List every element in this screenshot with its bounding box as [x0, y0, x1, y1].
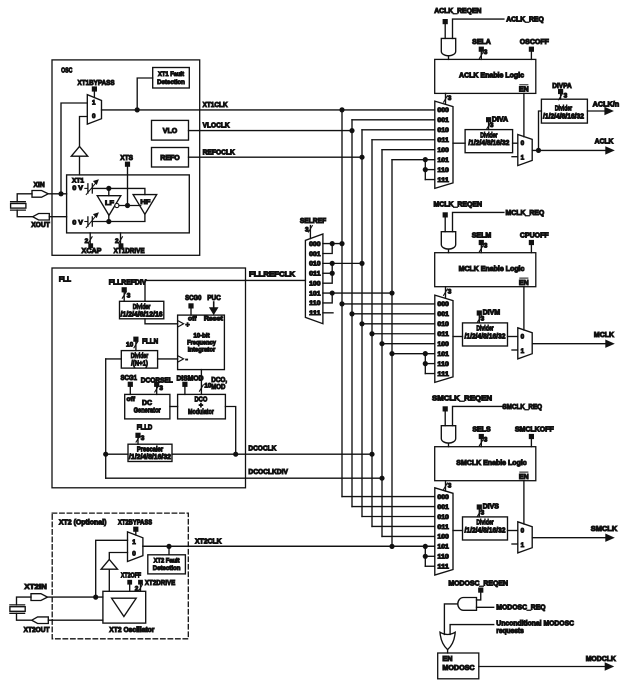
svg-text:MODOSC_REQ: MODOSC_REQ: [496, 605, 546, 612]
svg-text:2: 2: [115, 238, 119, 245]
svg-text:SELA: SELA: [472, 39, 491, 46]
svg-text:Divider: Divider: [476, 520, 493, 527]
svg-text:EN: EN: [519, 280, 529, 287]
svg-text:SMCLK_REQ: SMCLK_REQ: [502, 404, 542, 411]
svg-text:ACLK_REQ: ACLK_REQ: [506, 17, 544, 24]
svg-text:SMCLK Enable Logic: SMCLK Enable Logic: [456, 460, 527, 467]
svg-text:off: off: [127, 396, 136, 403]
svg-text:Reset: Reset: [204, 315, 224, 322]
svg-text:010: 010: [437, 127, 449, 134]
svg-text:XT2 Fault: XT2 Fault: [154, 557, 181, 564]
svg-text:VLOCLK: VLOCLK: [203, 123, 230, 130]
svg-text:0: 0: [521, 140, 525, 147]
svg-text:XT1: XT1: [72, 178, 85, 185]
svg-text:3: 3: [141, 435, 145, 442]
svg-text:MODOSC_REQEN: MODOSC_REQEN: [448, 580, 508, 587]
svg-text:XT2BYPASS: XT2BYPASS: [118, 519, 152, 526]
svg-text:ACLK Enable Logic: ACLK Enable Logic: [459, 73, 524, 80]
svg-text:XTS: XTS: [120, 155, 133, 162]
svg-text:3: 3: [305, 227, 309, 234]
svg-text:111: 111: [437, 177, 449, 184]
svg-text:111: 111: [309, 310, 321, 317]
svg-text:DCOCLK: DCOCLK: [248, 445, 276, 452]
svg-text:ACLK/n: ACLK/n: [593, 101, 620, 108]
svg-text:+: +: [185, 320, 190, 329]
svg-text:110: 110: [437, 167, 449, 174]
svg-text:011: 011: [309, 271, 321, 278]
svg-text:001: 001: [437, 117, 449, 124]
svg-text:XCAP: XCAP: [82, 248, 102, 255]
svg-text:XT2DRIVE: XT2DRIVE: [145, 580, 176, 587]
svg-text:XT2OUT: XT2OUT: [24, 627, 51, 634]
svg-text:SCG0: SCG0: [185, 295, 201, 302]
svg-text:1: 1: [521, 542, 525, 549]
svg-text:000: 000: [437, 107, 449, 114]
svg-text:011: 011: [437, 137, 449, 144]
svg-text:XT2OFF: XT2OFF: [121, 573, 142, 580]
svg-text:001: 001: [437, 504, 449, 511]
svg-text:XIN: XIN: [34, 182, 45, 189]
svg-text:SELS: SELS: [472, 427, 491, 434]
svg-text:10-bit: 10-bit: [193, 333, 210, 340]
svg-text:Unconditional MODOSC: Unconditional MODOSC: [496, 621, 574, 628]
svg-text:DCOCLKDIV: DCOCLKDIV: [248, 469, 288, 476]
svg-text:ACLK: ACLK: [595, 139, 614, 146]
svg-text:Modulator: Modulator: [188, 409, 214, 416]
svg-text:0: 0: [132, 550, 136, 557]
svg-text:100: 100: [309, 280, 321, 287]
svg-text:101: 101: [437, 157, 449, 164]
svg-text:requests: requests: [496, 628, 524, 635]
svg-text:10: 10: [126, 342, 134, 349]
svg-text:MCLK_REQEN: MCLK_REQEN: [434, 201, 483, 208]
svg-text:MOD: MOD: [211, 384, 225, 391]
svg-text:Prescaler: Prescaler: [137, 447, 164, 454]
svg-text:OSCOFF: OSCOFF: [520, 39, 550, 46]
svg-text:/1/2/4/8/16/32: /1/2/4/8/16/32: [465, 528, 506, 535]
svg-text:FLL: FLL: [59, 276, 72, 283]
svg-text:DC: DC: [142, 400, 152, 407]
svg-text:1: 1: [132, 539, 136, 546]
svg-text:XT1BYPASS: XT1BYPASS: [78, 80, 115, 87]
svg-text:FLLN: FLLN: [142, 338, 158, 345]
svg-text:/1/2/4/8/12/16: /1/2/4/8/12/16: [121, 311, 163, 318]
svg-text:SCG1: SCG1: [121, 375, 138, 382]
svg-text:OSC: OSC: [61, 67, 72, 74]
svg-text:111: 111: [437, 564, 449, 571]
svg-text:Divider: Divider: [476, 326, 493, 333]
svg-text:3: 3: [484, 437, 488, 444]
svg-text:3: 3: [127, 293, 131, 300]
svg-text:100: 100: [437, 341, 449, 348]
svg-text:Divider: Divider: [131, 353, 149, 360]
svg-text:0 V: 0 V: [72, 185, 83, 192]
svg-text:001: 001: [437, 311, 449, 318]
svg-text:Detection: Detection: [153, 565, 181, 572]
svg-text:CPUOFF: CPUOFF: [520, 233, 550, 240]
svg-text:XT1 Fault: XT1 Fault: [158, 71, 185, 78]
svg-text:001: 001: [309, 251, 321, 258]
svg-text:000: 000: [437, 301, 449, 308]
svg-text:SMCLKOFF: SMCLKOFF: [515, 427, 555, 434]
svg-text:Divider: Divider: [133, 304, 151, 311]
svg-text:3: 3: [159, 385, 163, 392]
svg-text:FLLREFDIV: FLLREFDIV: [109, 279, 147, 286]
svg-text:REFO: REFO: [160, 155, 180, 162]
svg-text:LF: LF: [105, 200, 114, 207]
svg-text:010: 010: [437, 514, 449, 521]
svg-text:Generator: Generator: [134, 408, 161, 415]
svg-text:0: 0: [92, 113, 96, 120]
svg-text:/1/2/4/8/16/32: /1/2/4/8/16/32: [465, 334, 506, 341]
svg-text:XT1DRIVE: XT1DRIVE: [114, 248, 145, 255]
svg-text:101: 101: [437, 544, 449, 551]
svg-text:XT2IN: XT2IN: [24, 584, 46, 591]
svg-text:MCLK: MCLK: [594, 332, 614, 339]
svg-text:2: 2: [85, 238, 89, 245]
svg-text:010: 010: [309, 261, 321, 268]
svg-text:MODOSC: MODOSC: [442, 665, 474, 672]
svg-text:3: 3: [481, 509, 485, 516]
svg-text:/1/2/4/8/16/32: /1/2/4/8/16/32: [468, 140, 509, 147]
svg-text:100: 100: [437, 534, 449, 541]
svg-text:110: 110: [437, 361, 449, 368]
svg-text:XT2 (Optional): XT2 (Optional): [59, 519, 107, 526]
svg-text:FLLREFCLK: FLLREFCLK: [249, 272, 295, 279]
svg-text:101: 101: [437, 351, 449, 358]
svg-text:3: 3: [484, 49, 488, 56]
svg-text:Integrator: Integrator: [188, 346, 216, 353]
svg-text:XT1CLK: XT1CLK: [203, 102, 228, 109]
svg-text:SELM: SELM: [472, 233, 492, 240]
svg-text:XOUT: XOUT: [31, 222, 50, 229]
svg-text:DIVA: DIVA: [492, 116, 508, 123]
svg-text:SELREF: SELREF: [300, 218, 327, 225]
svg-text:0: 0: [521, 527, 525, 534]
svg-text:DISMOD: DISMOD: [177, 376, 204, 383]
svg-text:111: 111: [437, 371, 449, 378]
svg-text:000: 000: [309, 241, 321, 248]
svg-text:3: 3: [481, 315, 485, 322]
svg-text:3: 3: [564, 93, 568, 100]
svg-text:1: 1: [92, 99, 96, 106]
svg-text:HF: HF: [140, 199, 150, 206]
svg-text:3: 3: [448, 95, 452, 102]
svg-text:000: 000: [437, 494, 449, 501]
svg-text:Detection: Detection: [157, 79, 185, 86]
svg-text:MCLK_REQ: MCLK_REQ: [506, 210, 545, 217]
svg-text:1: 1: [521, 155, 525, 162]
svg-text:PUC: PUC: [207, 295, 221, 302]
svg-text:EN: EN: [519, 474, 529, 481]
svg-text:1: 1: [521, 348, 525, 355]
svg-text:EN: EN: [519, 87, 529, 94]
svg-text:011: 011: [437, 524, 449, 531]
svg-text:0: 0: [521, 333, 525, 340]
svg-text:/1/2/4/8/16/32: /1/2/4/8/16/32: [129, 454, 171, 461]
svg-text:REFOCLK: REFOCLK: [203, 150, 235, 157]
svg-text:Divider: Divider: [480, 132, 497, 139]
svg-text:SMCLK_REQEN: SMCLK_REQEN: [432, 395, 492, 402]
svg-text:011: 011: [437, 331, 449, 338]
svg-text:3: 3: [448, 483, 452, 490]
svg-text:DIVS: DIVS: [483, 504, 500, 511]
svg-text:SMCLK: SMCLK: [591, 526, 617, 533]
svg-text:3: 3: [448, 289, 452, 296]
svg-text:XT2CLK: XT2CLK: [195, 538, 222, 545]
svg-text:MODCLK: MODCLK: [586, 656, 616, 663]
svg-text:Divider: Divider: [555, 106, 572, 113]
svg-text:FLLD: FLLD: [137, 425, 153, 432]
svg-text:010: 010: [437, 321, 449, 328]
svg-text:101: 101: [309, 290, 321, 297]
svg-text:XT2 Oscillator: XT2 Oscillator: [109, 627, 154, 634]
svg-text:VLO: VLO: [163, 128, 178, 135]
svg-text:ACLK_REQEN: ACLK_REQEN: [434, 8, 481, 15]
svg-text:DIVM: DIVM: [483, 310, 501, 317]
svg-text:110: 110: [309, 300, 321, 307]
svg-text:/(N+1): /(N+1): [131, 361, 148, 368]
svg-text:3: 3: [484, 243, 488, 250]
svg-text:3: 3: [490, 122, 494, 129]
svg-text:110: 110: [437, 554, 449, 561]
svg-text:/1/2/4/8/16/32: /1/2/4/8/16/32: [543, 114, 584, 121]
svg-text:DIVPA: DIVPA: [552, 83, 571, 90]
svg-text:0 V: 0 V: [72, 219, 83, 226]
svg-text:100: 100: [437, 147, 449, 154]
svg-text:MCLK Enable Logic: MCLK Enable Logic: [459, 266, 525, 273]
svg-text:EN: EN: [442, 656, 452, 663]
